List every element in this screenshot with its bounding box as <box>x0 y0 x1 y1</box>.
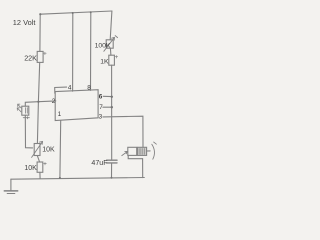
wire node A down to 10K pot <box>37 102 38 144</box>
svg-text:1: 1 <box>58 111 62 118</box>
node junction rail-pin4 <box>72 12 74 14</box>
wire 1K down to capacitor (pins 6/7 net) <box>111 65 113 159</box>
wire ground stub <box>10 179 12 190</box>
capacitor C1 47uF plate bottom <box>107 162 117 164</box>
wire earphone leg to ground rail <box>142 159 144 178</box>
wire node A to photo device <box>25 102 38 107</box>
svg-text:7: 7 <box>99 104 103 111</box>
node junction pin1-ground <box>59 177 61 179</box>
svg-text:1K: 1K <box>100 59 109 66</box>
wire earphone bottom bar <box>128 155 142 158</box>
wire capacitor to ground rail <box>111 163 113 177</box>
svg-text:47uF: 47uF <box>91 159 108 167</box>
node junction cap-ground <box>111 177 113 179</box>
node A junction <box>37 101 39 103</box>
svg-text:8: 8 <box>87 84 91 91</box>
svg-text:100K: 100K <box>95 42 111 49</box>
svg-text:10K: 10K <box>42 146 55 153</box>
resistor R 22K <box>37 51 43 62</box>
earphone body left box <box>128 147 137 155</box>
wire photo device to pot wiper <box>25 115 32 148</box>
svg-text:2: 2 <box>52 98 56 105</box>
wire pin6 stub <box>103 95 112 97</box>
wire pin3 output to earphone <box>103 116 143 147</box>
svg-text:3: 3 <box>99 113 103 120</box>
wire rail corner down to 100K pot <box>110 11 112 40</box>
capacitor C1 47uF plate top <box>107 159 117 161</box>
earphone body right box hatched <box>137 147 146 155</box>
earphone right stub <box>147 150 151 152</box>
wire 10K to ground rail <box>39 172 41 178</box>
potentiometer 100K <box>106 40 113 48</box>
wire top supply rail <box>40 11 112 14</box>
IC U1 555 timer body <box>55 90 98 121</box>
wire pin7 stub <box>103 106 112 108</box>
circuit schematic: 555 timer monostable with earphone output <box>0 0 163 200</box>
wire pin2 stub <box>38 100 55 103</box>
svg-text:6: 6 <box>99 94 103 101</box>
wire pin4 to rail <box>72 13 74 91</box>
wire pin1 to ground rail <box>59 121 62 178</box>
node junction rail-pin8 <box>90 11 92 13</box>
resistor R 10K <box>37 162 43 172</box>
node junction pin6 <box>111 96 113 98</box>
svg-text:22K: 22K <box>24 53 37 62</box>
wire 100K to 1K <box>109 48 112 55</box>
ground <box>4 190 17 192</box>
svg-text:10K: 10K <box>24 165 37 172</box>
wire ground rail <box>11 178 144 180</box>
wire 12V rail down to 22K <box>39 14 41 51</box>
wire pot to 10K resistor <box>37 156 39 162</box>
svg-text:12 Volt: 12 Volt <box>13 18 36 27</box>
photocell PC1 <box>22 106 29 115</box>
wire 22K to node A <box>38 62 39 101</box>
svg-text:4: 4 <box>68 85 72 92</box>
wire pin8 to rail <box>90 12 92 90</box>
earphone ear arc <box>152 144 155 159</box>
earphone input arrow <box>122 151 128 155</box>
potentiometer 10K <box>34 144 40 156</box>
node junction rail left end <box>39 13 41 15</box>
node junction pin7 <box>111 106 113 108</box>
resistor R 1K <box>109 55 115 65</box>
